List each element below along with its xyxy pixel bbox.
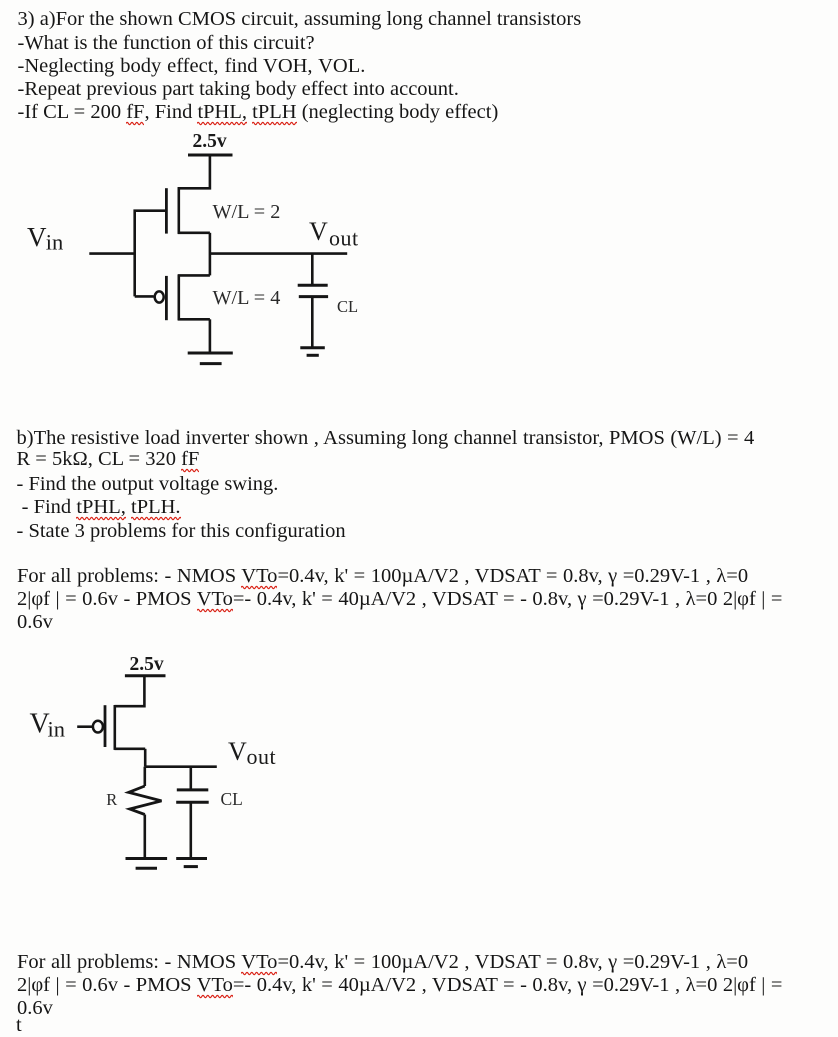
text block B <box>17 427 755 450</box>
ground cap C1 bar2 <box>307 354 319 357</box>
label Vin C1 <box>27 222 63 255</box>
svg-text:V: V <box>228 737 247 766</box>
text block D <box>17 951 748 974</box>
svg-text:V: V <box>27 222 47 252</box>
PMOS M1 source stub <box>178 232 210 235</box>
Vin wire C2 <box>77 725 92 728</box>
PMOS M3 source stub <box>115 747 146 750</box>
capacitor CL C2 top plate <box>177 788 209 791</box>
bubble M3 gate <box>93 721 103 733</box>
svg-text:CL: CL <box>221 789 243 809</box>
wire VDD to PMOS drain <box>178 155 210 188</box>
label Vout C2 <box>228 737 276 769</box>
resistor R zigzag <box>129 786 162 815</box>
VDD supply bar C1 <box>188 154 233 157</box>
svg-text:W/L = 2: W/L = 2 <box>213 201 281 223</box>
svg-text:out: out <box>247 744 277 769</box>
wire M2 source to ground <box>209 319 212 353</box>
VDD supply bar C2 <box>125 674 166 677</box>
capacitor CL C2 bottom lead <box>190 802 193 858</box>
svg-text:W/L = 4: W/L = 4 <box>213 287 281 309</box>
PMOS M1 gate bar <box>165 188 168 233</box>
ground cap C1 bar1 <box>300 346 325 349</box>
label CL C2 <box>221 789 243 809</box>
capacitor CL C1 top plate <box>298 284 328 287</box>
text block A <box>18 8 582 31</box>
label Vout C1 <box>309 217 359 251</box>
svg-text:CL: CL <box>337 297 358 316</box>
svg-text:2.5v: 2.5v <box>130 654 164 675</box>
PMOS M3 channel <box>114 705 117 750</box>
svg-text:2.5v: 2.5v <box>193 131 227 152</box>
svg-text:in: in <box>46 230 64 255</box>
ground R bar2 <box>136 867 157 870</box>
resistor R top lead <box>144 767 147 786</box>
label 2.5v (VDD C1) <box>193 131 227 152</box>
label W/L = 2 <box>213 201 281 223</box>
ground cap C2 bar1 <box>176 857 207 860</box>
ground R bar1 <box>126 857 168 860</box>
NMOS M2 gate bar <box>165 276 168 320</box>
PMOS M3 gate bar <box>104 705 107 747</box>
label 2.5v (VDD C2) <box>130 654 164 675</box>
NMOS M2 drain stub <box>178 274 210 277</box>
capacitor CL C1 bottom plate <box>299 295 328 298</box>
PMOS M1 channel <box>178 187 181 234</box>
label R <box>106 790 117 809</box>
ground cap C2 bar2 <box>184 865 198 868</box>
svg-text:out: out <box>329 226 359 251</box>
NMOS M2 source stub <box>178 318 210 321</box>
ground NMOS bar1 <box>188 352 233 355</box>
Vin wire C1 <box>89 252 134 255</box>
wire gate connection top <box>135 211 167 297</box>
svg-text:in: in <box>48 717 66 742</box>
capacitor CL C1 bottom lead <box>311 297 314 348</box>
ground NMOS bar2 <box>200 362 222 365</box>
output wire C1 <box>210 252 347 255</box>
label W/L = 4 <box>213 287 281 309</box>
wire M3 source to output node <box>144 749 147 767</box>
NMOS M2 gate wire with bubble <box>135 295 154 298</box>
label CL C1 <box>337 297 358 316</box>
resistor R bottom lead <box>144 815 147 859</box>
label Vin C2 <box>30 709 66 742</box>
NMOS M2 channel <box>178 275 181 321</box>
output wire C2 <box>145 765 217 768</box>
svg-text:R: R <box>106 790 117 809</box>
text block C <box>17 565 748 588</box>
capacitor CL C2 top lead <box>190 767 193 789</box>
svg-text:V: V <box>309 217 328 246</box>
capacitor CL C1 top lead <box>311 254 314 285</box>
wire M1 source to output node <box>209 233 212 276</box>
capacitor CL C2 bottom plate <box>176 801 209 804</box>
wire VDD to PMOS drain C2 <box>115 676 145 706</box>
bubble M2 gate <box>155 291 164 302</box>
